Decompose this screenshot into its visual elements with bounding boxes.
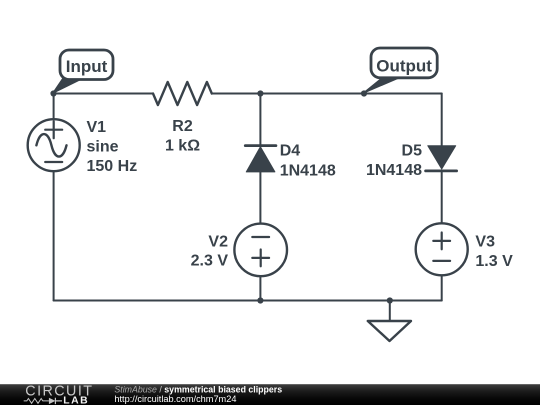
node Input junction: [50, 90, 56, 96]
node D4 top junction: [257, 90, 263, 96]
diode D5: [426, 146, 457, 171]
node ground junction: [387, 297, 393, 303]
label D5 name: [402, 143, 423, 160]
diode D4: [245, 146, 276, 172]
ground: [368, 301, 411, 342]
footer title text: [114, 385, 282, 395]
net flag Input: [53, 50, 113, 93]
wire V2 junction to ground junction: [260, 300, 389, 302]
wire input node to R2: [54, 93, 153, 95]
label D4 name: [280, 143, 301, 160]
svg-text:1.3 V: 1.3 V: [475, 253, 513, 270]
label R2 value: [165, 137, 200, 154]
voltage source V2: [234, 224, 287, 277]
label D4 value: [280, 162, 336, 179]
wire D4 junction to Output node: [260, 93, 364, 95]
svg-text:D5: D5: [402, 143, 423, 160]
label R2 name: [172, 118, 193, 135]
wire V1 bottom to bottom-left corner: [53, 171, 55, 300]
label D5 value: [366, 162, 422, 179]
svg-text:Output: Output: [376, 56, 432, 75]
label V3 value: [475, 253, 513, 270]
svg-text:D4: D4: [280, 143, 301, 160]
wire R2 to D4 junction: [212, 93, 261, 95]
svg-text:2.3 V: 2.3 V: [191, 253, 229, 270]
voltage source V3: [416, 223, 468, 275]
wire ground junction to bottom-right corner: [390, 300, 442, 302]
svg-text:V3: V3: [475, 234, 495, 251]
label V1 value: [87, 139, 138, 175]
wire D5 to V3 top: [441, 171, 443, 224]
footer url text: [114, 394, 236, 404]
svg-text:Input: Input: [66, 57, 108, 76]
wire top-right corner down to D5: [441, 94, 443, 147]
wire D4 junction down to D4: [259, 94, 261, 146]
node V2 bottom junction: [257, 297, 263, 303]
label V3 name: [475, 234, 495, 251]
wire Output node to top-right corner: [364, 93, 442, 95]
svg-text:R2: R2: [172, 118, 193, 135]
wire bottom-right corner up to V3 bottom: [441, 275, 443, 301]
wire V2 bottom to junction: [259, 276, 261, 300]
label V1 name: [87, 119, 107, 136]
svg-text:1 kΩ: 1 kΩ: [165, 137, 200, 154]
svg-text:1N4148: 1N4148: [280, 162, 336, 179]
svg-text:sine: sine: [87, 139, 119, 156]
wire D4 to V2 top: [259, 172, 261, 224]
node Output junction: [361, 90, 367, 96]
wire bottom-left corner to V2 junction: [54, 300, 261, 302]
resistor R2: [153, 82, 212, 105]
svg-text:http://circuitlab.com/chm7m24: http://circuitlab.com/chm7m24: [114, 394, 236, 404]
svg-text:V2: V2: [208, 233, 228, 250]
wire input node to V1 top: [53, 94, 55, 120]
svg-text:LAB: LAB: [63, 396, 89, 405]
svg-text:1N4148: 1N4148: [366, 162, 422, 179]
footer bar: [0, 384, 540, 405]
net flag Output: [364, 48, 437, 93]
svg-text:V1: V1: [87, 119, 107, 136]
logo CircuitLab: [24, 383, 94, 405]
svg-text:150 Hz: 150 Hz: [87, 158, 138, 175]
voltage source V1: [28, 119, 80, 171]
label V2 name: [208, 233, 228, 250]
label V2 value: [191, 253, 229, 270]
